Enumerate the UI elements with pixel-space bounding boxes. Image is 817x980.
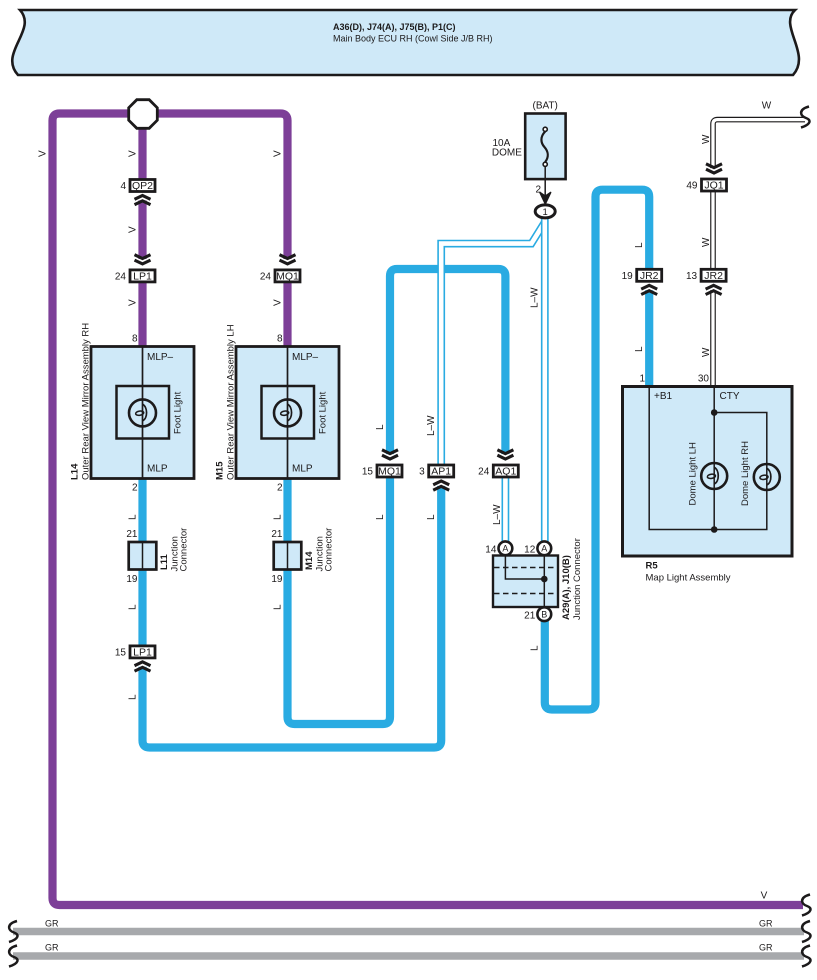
svg-text:21: 21 (126, 529, 138, 540)
svg-text:MLP: MLP (292, 464, 313, 475)
svg-text:W: W (701, 237, 712, 247)
svg-text:LP1: LP1 (133, 271, 152, 283)
svg-text:Outer Rear View Mirror Assembl: Outer Rear View Mirror Assembly LH (226, 324, 237, 480)
svg-text:GR: GR (45, 943, 59, 953)
svg-text:Connector: Connector (323, 528, 334, 572)
svg-text:2: 2 (132, 483, 138, 494)
svg-text:L: L (634, 346, 645, 352)
svg-text:Foot Light: Foot Light (317, 391, 328, 434)
svg-text:14: 14 (485, 544, 497, 555)
svg-text:13: 13 (686, 271, 698, 282)
svg-text:V: V (37, 150, 48, 157)
svg-text:L: L (127, 514, 138, 520)
svg-text:A: A (502, 544, 508, 554)
svg-text:30: 30 (698, 374, 710, 385)
svg-text:49: 49 (686, 181, 698, 192)
svg-text:L–W: L–W (529, 287, 540, 308)
svg-text:V: V (127, 226, 138, 233)
svg-text:JR2: JR2 (704, 270, 723, 282)
svg-text:AQ1: AQ1 (495, 466, 516, 478)
svg-text:2: 2 (277, 483, 283, 494)
svg-text:A: A (541, 544, 547, 554)
svg-text:MLP–: MLP– (292, 352, 319, 363)
svg-text:Connector: Connector (178, 528, 189, 572)
svg-text:A29(A), J10(B): A29(A), J10(B) (561, 555, 572, 620)
svg-text:MLP–: MLP– (147, 352, 174, 363)
svg-text:Junction Connector: Junction Connector (572, 538, 583, 620)
svg-text:JQ1: JQ1 (704, 180, 723, 192)
svg-text:L11: L11 (159, 553, 170, 570)
svg-text:M15: M15 (215, 461, 226, 480)
svg-text:M14: M14 (304, 551, 315, 570)
svg-text:1: 1 (543, 207, 548, 218)
svg-text:L–W: L–W (492, 504, 503, 525)
svg-text:2: 2 (535, 185, 541, 196)
svg-text:W: W (701, 134, 712, 144)
svg-text:MQ1: MQ1 (276, 271, 299, 283)
svg-text:L: L (634, 242, 645, 248)
svg-text:19: 19 (271, 574, 283, 585)
svg-text:LP1: LP1 (133, 647, 152, 659)
svg-text:12: 12 (524, 544, 536, 555)
svg-text:Main Body ECU RH (Cowl Side J/: Main Body ECU RH (Cowl Side J/B RH) (333, 34, 493, 44)
svg-text:GR: GR (759, 943, 773, 953)
svg-text:4: 4 (120, 181, 126, 192)
svg-text:MLP: MLP (147, 464, 168, 475)
svg-text:V: V (761, 891, 768, 902)
svg-text:W: W (701, 347, 712, 357)
svg-text:GR: GR (759, 919, 773, 929)
svg-text:JR2: JR2 (640, 270, 659, 282)
svg-text:QP2: QP2 (132, 180, 153, 192)
svg-text:V: V (272, 150, 283, 157)
svg-text:15: 15 (115, 648, 127, 659)
svg-text:Dome Light LH: Dome Light LH (687, 442, 698, 506)
svg-text:19: 19 (622, 271, 634, 282)
svg-text:(BAT): (BAT) (533, 101, 558, 112)
svg-text:Dome Light RH: Dome Light RH (740, 441, 751, 506)
svg-text:R5: R5 (646, 561, 659, 572)
svg-text:1: 1 (639, 374, 645, 385)
svg-text:8: 8 (277, 333, 283, 344)
svg-text:21: 21 (524, 611, 536, 622)
svg-text:V: V (272, 299, 283, 306)
svg-text:L: L (375, 424, 386, 430)
svg-text:GR: GR (45, 919, 59, 929)
svg-text:L: L (127, 694, 138, 700)
svg-text:21: 21 (271, 529, 283, 540)
svg-text:DOME: DOME (492, 148, 522, 159)
svg-text:MQ1: MQ1 (378, 466, 401, 478)
svg-text:24: 24 (260, 272, 272, 283)
svg-text:B: B (541, 609, 547, 619)
svg-text:L–W: L–W (426, 415, 437, 436)
svg-text:Outer Rear View Mirror Assembl: Outer Rear View Mirror Assembly RH (81, 323, 92, 480)
svg-text:8: 8 (132, 333, 138, 344)
svg-text:3: 3 (419, 467, 425, 478)
svg-text:15: 15 (362, 467, 374, 478)
svg-text:L14: L14 (70, 463, 81, 480)
svg-text:A36(D), J74(A), J75(B), P1(C): A36(D), J74(A), J75(B), P1(C) (333, 22, 456, 32)
svg-text:V: V (127, 150, 138, 157)
svg-text:19: 19 (126, 574, 138, 585)
svg-text:W: W (762, 101, 772, 112)
svg-text:L: L (272, 514, 283, 520)
svg-text:CTY: CTY (720, 391, 740, 402)
svg-text:24: 24 (478, 467, 490, 478)
svg-text:L: L (272, 604, 283, 610)
svg-text:L: L (529, 645, 540, 651)
svg-text:L: L (426, 514, 437, 520)
svg-text:24: 24 (115, 272, 127, 283)
svg-text:Map Light Assembly: Map Light Assembly (646, 573, 731, 584)
svg-text:+B1: +B1 (654, 391, 673, 402)
svg-text:Foot Light: Foot Light (172, 391, 183, 434)
svg-text:AP1: AP1 (431, 466, 451, 478)
svg-text:V: V (127, 299, 138, 306)
svg-text:L: L (127, 604, 138, 610)
svg-text:L: L (375, 514, 386, 520)
